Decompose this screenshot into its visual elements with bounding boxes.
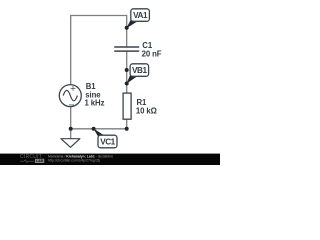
svg-text:10 kΩ: 10 kΩ <box>136 106 157 115</box>
svg-text:VA1: VA1 <box>133 11 148 20</box>
svg-text:1 kHz: 1 kHz <box>85 99 105 108</box>
svg-text:VB1: VB1 <box>132 66 147 75</box>
svg-text:LAB: LAB <box>36 159 44 163</box>
svg-text:VC1: VC1 <box>100 137 115 146</box>
svg-text:20 nF: 20 nF <box>142 49 162 58</box>
svg-text:http://circuitlab.com/c/4jn27h: http://circuitlab.com/c/4jn27hqzc5j <box>48 159 100 163</box>
svg-text:Marretena / Krehanalyn: Lab1 -: Marretena / Krehanalyn: Lab1 - ckzdzhbm <box>48 153 114 158</box>
